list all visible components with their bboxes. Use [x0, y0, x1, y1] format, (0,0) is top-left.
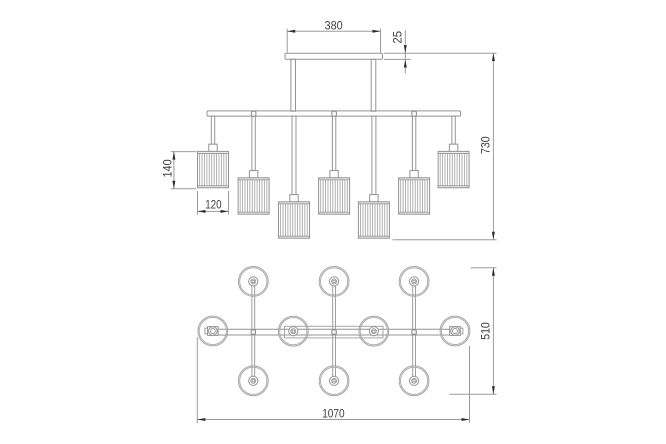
svg-text:510: 510 — [480, 322, 493, 340]
canopy outline in plan — [285, 326, 384, 338]
pendant rod 6 — [412, 116, 415, 171]
ceiling mount bar (canopy) — [285, 53, 383, 59]
svg-text:140: 140 — [161, 159, 174, 177]
plan arm pair — [412, 286, 414, 377]
shade hub — [249, 277, 258, 286]
shade hub — [330, 277, 339, 286]
top row shade circle 1 — [238, 267, 268, 297]
pendant rod 5 — [372, 116, 376, 195]
bar knuckle — [412, 111, 417, 116]
end shade hub with housing — [450, 327, 463, 336]
shade 5 (fluted cylinder) — [358, 202, 389, 238]
pendant rod 4 — [332, 116, 335, 171]
main bar plan bottom line — [207, 334, 458, 336]
dimension 140 (shade height) — [161, 152, 196, 189]
dimension 730 (overall height) — [393, 53, 497, 240]
bottom row shade circle 2 — [319, 366, 349, 396]
plan arm pair — [332, 286, 334, 377]
on-bar shade circle right — [359, 316, 389, 346]
shade 4 (fluted cylinder) — [319, 178, 350, 214]
plan view: chandelier from below — [198, 267, 470, 396]
plan knuckle — [412, 330, 416, 334]
dimension 25 (canopy height) — [384, 30, 497, 73]
shade 2 (fluted cylinder) — [238, 178, 269, 214]
plan arm pair — [251, 286, 253, 377]
shade hub — [330, 376, 339, 385]
socket 6 — [410, 171, 418, 178]
socket 7 — [449, 144, 457, 151]
left end shade circle — [198, 316, 228, 346]
top row shade circle 2 — [319, 267, 349, 297]
elevation view: chandelier front — [198, 53, 470, 238]
dimension 1070 (overall length) — [197, 338, 469, 424]
shade 3 (fluted cylinder) — [279, 202, 310, 238]
svg-text:25: 25 — [392, 31, 405, 44]
shade hub — [410, 376, 419, 385]
socket 2 — [249, 171, 257, 178]
dimension 510 (overall width/depth) — [450, 268, 497, 395]
svg-text:1070: 1070 — [322, 407, 344, 420]
shade hub — [249, 376, 258, 385]
bar knuckle — [251, 111, 256, 116]
socket 5 — [370, 195, 378, 202]
svg-text:120: 120 — [205, 199, 221, 212]
pendant rod 1 — [211, 116, 214, 144]
shade 1 (fluted cylinder) — [198, 151, 229, 187]
plan knuckle — [251, 330, 255, 334]
shade 7 (fluted cylinder) — [438, 151, 469, 187]
shade hub — [289, 327, 298, 336]
plan knuckle — [332, 330, 336, 334]
shade 6 (fluted cylinder) — [399, 178, 430, 214]
main horizontal bar — [207, 111, 461, 116]
right end shade circle — [440, 316, 470, 346]
svg-text:730: 730 — [480, 136, 493, 154]
main bar plan top line — [207, 328, 458, 330]
end shade hub with housing — [205, 327, 218, 336]
dimension 380 (canopy width) — [287, 20, 380, 53]
socket 1 — [209, 144, 217, 151]
top row shade circle 3 — [399, 267, 429, 297]
dimension 120 (shade width) — [198, 191, 229, 215]
shade hub — [369, 327, 378, 336]
bar knuckle — [332, 111, 337, 116]
socket 3 — [290, 195, 298, 202]
pendant rod 7 — [452, 116, 455, 144]
bottom row shade circle 3 — [399, 366, 429, 396]
on-bar shade circle left — [278, 316, 308, 346]
shade hub — [410, 277, 419, 286]
socket 4 — [330, 171, 338, 178]
left support rod — [291, 59, 296, 111]
right support rod — [371, 59, 376, 111]
pendant rod 2 — [252, 116, 255, 171]
svg-text:380: 380 — [325, 20, 343, 33]
bottom row shade circle 1 — [238, 366, 268, 396]
pendant rod 3 — [292, 116, 296, 195]
